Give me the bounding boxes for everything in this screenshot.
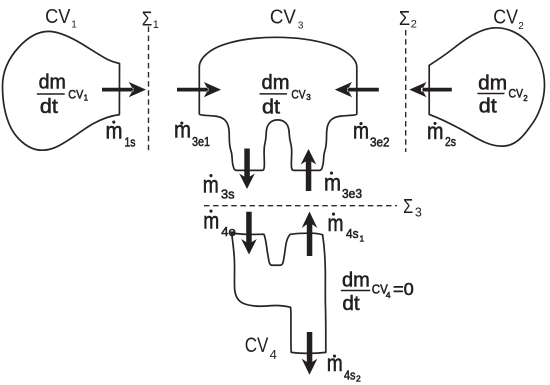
arrow m4s1 (up, out of CV4 top-right)	[302, 212, 318, 257]
svg-text:dt: dt	[479, 96, 497, 118]
svg-text:dm: dm	[262, 72, 290, 94]
svg-text:m: m	[203, 208, 219, 234]
svg-text:4s: 4s	[344, 368, 356, 382]
arrow m2s (CV2 outlet, leftward)	[409, 82, 452, 97]
svg-text:dt: dt	[342, 292, 360, 315]
fraction dm/dt CV2	[477, 72, 528, 117]
svg-text:Σ: Σ	[399, 8, 410, 30]
svg-text:dt: dt	[40, 96, 58, 118]
svg-text:dm: dm	[342, 269, 370, 292]
svg-text:3: 3	[298, 21, 304, 32]
svg-text:CV: CV	[493, 7, 518, 29]
label m3e2	[353, 118, 390, 150]
svg-text:m: m	[427, 118, 444, 144]
svg-text:Σ: Σ	[142, 9, 153, 31]
svg-text:4e: 4e	[221, 225, 236, 239]
svg-text:3e2: 3e2	[370, 135, 390, 149]
blob CV2	[429, 28, 544, 146]
svg-text:dm: dm	[478, 72, 507, 94]
svg-text:dm: dm	[39, 72, 66, 94]
svg-text:m: m	[328, 210, 344, 236]
arrow m4e (down, into CV4 top-left)	[241, 212, 257, 255]
blob CV4	[232, 233, 326, 353]
label m3e3	[324, 170, 362, 202]
arrow m3e3 (up, right leg of CV3)	[301, 149, 317, 191]
svg-text:3: 3	[306, 93, 311, 102]
fraction dm/dt CV4 = 0	[341, 269, 414, 315]
svg-text:2s: 2s	[445, 135, 456, 149]
svg-text:2: 2	[518, 21, 524, 32]
svg-text:m: m	[327, 350, 343, 376]
svg-text:CV: CV	[291, 87, 306, 101]
svg-text:m: m	[174, 116, 191, 142]
svg-text:2: 2	[356, 373, 361, 383]
arrow m4s2 (down, out of CV4 bottom)	[302, 332, 318, 375]
svg-text:m: m	[324, 170, 341, 196]
svg-text:CV: CV	[509, 87, 524, 101]
svg-text:4s: 4s	[346, 227, 359, 241]
svg-text:CV: CV	[270, 6, 297, 28]
svg-text:2: 2	[411, 18, 417, 30]
fraction dm/dt CV3	[260, 72, 312, 118]
svg-text:1: 1	[71, 20, 77, 31]
label m2s	[427, 118, 456, 149]
svg-text:2: 2	[523, 94, 528, 103]
blob CV1	[3, 31, 120, 150]
blob CV3	[199, 37, 356, 170]
arrow m3s (down, left leg of CV3)	[239, 149, 255, 190]
dashed line sigma2	[405, 30, 407, 152]
svg-text:3: 3	[415, 205, 422, 219]
svg-text:=0: =0	[393, 279, 414, 299]
svg-text:m: m	[203, 172, 219, 198]
label m4e	[203, 208, 236, 239]
svg-text:3s: 3s	[221, 188, 235, 202]
svg-text:1: 1	[84, 94, 89, 103]
arrow m3e2 (into CV3 from right, leftward)	[335, 82, 379, 97]
svg-text:CV: CV	[68, 87, 84, 101]
svg-text:CV: CV	[245, 334, 269, 357]
svg-text:3e3: 3e3	[342, 187, 362, 201]
label m4s1	[328, 210, 365, 244]
arrow m3e1 (into CV3 from left, rightward)	[177, 82, 221, 97]
label m3s	[203, 172, 235, 202]
svg-text:Σ: Σ	[403, 196, 413, 218]
arrow m1s (CV1 outlet, rightward)	[102, 82, 146, 97]
svg-text:1s: 1s	[125, 136, 136, 150]
svg-text:4: 4	[270, 347, 277, 362]
svg-text:m: m	[353, 118, 369, 144]
svg-text:m: m	[106, 118, 123, 144]
fraction dm/dt CV1	[37, 72, 89, 118]
svg-text:dt: dt	[262, 97, 280, 119]
svg-text:4: 4	[386, 290, 391, 300]
dashed line sigma1	[148, 27, 150, 152]
svg-text:3e1: 3e1	[192, 135, 210, 149]
svg-text:1: 1	[153, 19, 159, 31]
label m3e1	[174, 116, 210, 149]
svg-text:1: 1	[360, 234, 365, 244]
label m4s2	[327, 350, 361, 383]
label m1s	[106, 118, 136, 150]
svg-text:CV: CV	[45, 6, 71, 28]
dashed line sigma3	[204, 205, 397, 207]
